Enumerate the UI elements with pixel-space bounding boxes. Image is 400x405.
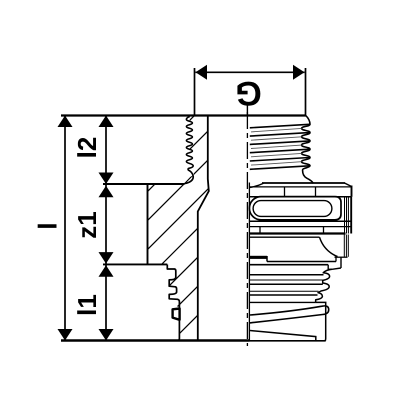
G leader tick (246, 103, 248, 116)
svg-text:l: l (33, 222, 63, 229)
z1 top extension + flange top edge (103, 183, 185, 185)
nut lower band lines (249, 221, 351, 233)
bottom face right half (250, 340, 326, 342)
arrow l2 top (99, 116, 114, 128)
washer top edge (267, 257, 348, 261)
thread root lines (thin) (251, 128, 302, 165)
arrow G left (196, 65, 208, 80)
arrow l2 bottom (99, 173, 114, 185)
thread helix sliver (250, 306, 329, 323)
dimension l vertical line (64, 116, 66, 341)
centerline dashed (246, 112, 248, 346)
nut skirt top edge (249, 236, 319, 238)
bottom face baseline (61, 339, 250, 342)
svg-text:z1: z1 (72, 211, 102, 238)
arrow z1 top (99, 186, 114, 198)
svg-text:l1: l1 (72, 294, 102, 316)
right male thread profile (view) (302, 116, 314, 184)
right half: view edge at centerline (248, 183, 250, 341)
left male thread profile (section) (185, 117, 194, 184)
nut slot capsule inner (253, 201, 332, 217)
nut skirt chamfer curve (320, 237, 338, 256)
dimension G horizontal line (195, 68, 306, 117)
arrow l bottom (58, 329, 73, 341)
arrow G right (293, 65, 305, 80)
arrow l1 top (99, 265, 114, 277)
flange band (right view) (249, 183, 351, 197)
nut OD verticals (345, 197, 352, 234)
washer bottom edge with right step (249, 257, 341, 269)
arrow l top (58, 116, 73, 128)
washer step bar (249, 256, 267, 259)
thread crest lines (250, 124, 310, 169)
bottom thread runout curve (250, 331, 316, 341)
press-end horizontal lines (249, 275, 323, 303)
arrow z1 bottom (99, 252, 114, 264)
top face line (61, 114, 306, 116)
press-end ribs right profile (view) (316, 269, 332, 302)
seal ring (173, 309, 180, 320)
arrow l1 bottom (99, 329, 114, 341)
bore wall (section inner edge) (198, 117, 209, 341)
body left edge (147, 184, 149, 265)
ribbed press-end left profile (section) (167, 265, 179, 309)
dimension l2/z1/l1 vertical line (105, 116, 107, 341)
svg-text:l2: l2 (72, 137, 102, 159)
press-end step to thread cylinder (316, 302, 326, 340)
body bottom flange face (103, 263, 167, 265)
nut slot capsule outer (249, 197, 341, 220)
svg-text:G: G (235, 74, 261, 112)
